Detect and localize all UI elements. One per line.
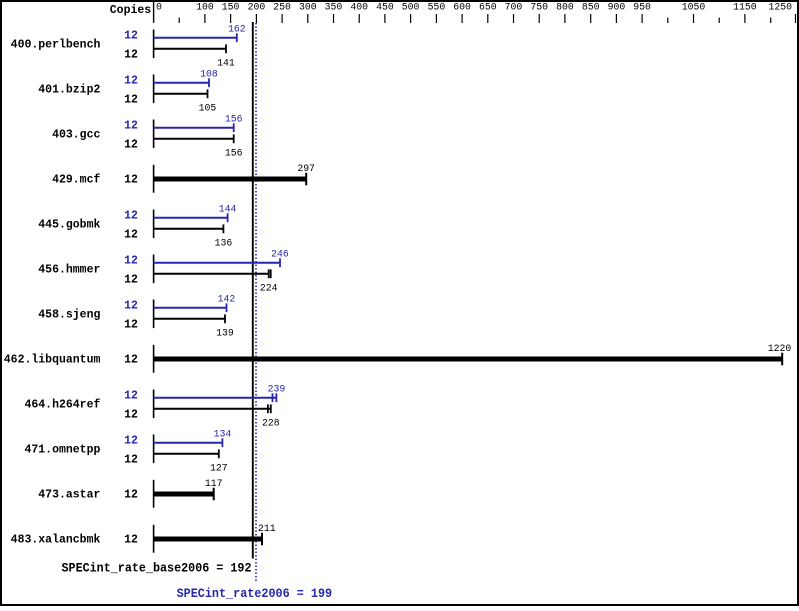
x axis tick 750	[538, 14, 540, 23]
483.xalancbmk bar (211)	[154, 537, 262, 542]
458.sjeng peak bar end cap	[226, 303, 228, 312]
svg-text:156: 156	[225, 113, 243, 124]
x axis tick 550	[435, 14, 437, 23]
429.mcf left cap	[153, 165, 155, 193]
svg-text:12: 12	[124, 120, 138, 133]
svg-text:500: 500	[402, 1, 420, 12]
401.bzip2 left cap	[153, 75, 155, 104]
x axis tick 200	[255, 14, 257, 23]
svg-text:150: 150	[222, 1, 240, 12]
429.mcf bar end cap	[305, 173, 307, 186]
svg-text:12: 12	[124, 489, 138, 502]
403.gcc base bar (156)	[154, 138, 234, 140]
x axis tick 950	[641, 14, 643, 23]
svg-text:350: 350	[325, 1, 343, 12]
svg-text:12: 12	[124, 30, 138, 43]
svg-text:SPECint_rate2006 = 199: SPECint_rate2006 = 199	[177, 586, 333, 601]
svg-text:108: 108	[200, 68, 218, 79]
svg-text:239: 239	[268, 383, 286, 394]
456.hmmer peak bar (246)	[154, 262, 280, 264]
svg-text:403.gcc: 403.gcc	[52, 129, 100, 142]
svg-text:700: 700	[505, 1, 523, 12]
svg-text:12: 12	[124, 49, 138, 62]
x axis tick 1250	[795, 14, 797, 23]
400.perlbench peak bar end cap	[236, 33, 238, 42]
svg-text:471.omnetpp: 471.omnetpp	[24, 444, 100, 457]
x axis tick 450	[384, 14, 386, 23]
471.omnetpp peak bar end cap	[221, 438, 223, 447]
svg-text:0: 0	[156, 1, 162, 12]
svg-text:473.astar: 473.astar	[38, 489, 100, 502]
svg-text:117: 117	[205, 478, 223, 489]
svg-text:458.sjeng: 458.sjeng	[38, 309, 100, 322]
svg-text:950: 950	[633, 1, 651, 12]
473.astar bar (117)	[154, 492, 214, 497]
445.gobmk left cap	[153, 210, 155, 239]
400.perlbench base bar (141)	[154, 48, 226, 50]
svg-text:1150: 1150	[733, 1, 757, 12]
464.h264ref peak bar (239)	[154, 397, 277, 399]
svg-text:127: 127	[210, 462, 228, 473]
svg-text:12: 12	[124, 94, 138, 107]
400.perlbench base bar end cap	[225, 44, 227, 53]
x axis minor tick 1100	[718, 18, 720, 23]
svg-text:445.gobmk: 445.gobmk	[38, 219, 100, 232]
svg-text:SPECint_rate_base2006 = 192: SPECint_rate_base2006 = 192	[62, 561, 252, 576]
svg-text:144: 144	[219, 203, 237, 214]
svg-text:464.h264ref: 464.h264ref	[24, 399, 100, 412]
svg-text:12: 12	[124, 319, 138, 332]
x axis minor tick 1200	[770, 18, 772, 23]
svg-text:1050: 1050	[682, 1, 706, 12]
x axis tick 700	[513, 14, 515, 23]
svg-text:900: 900	[608, 1, 626, 12]
445.gobmk base bar end cap	[222, 224, 224, 233]
svg-text:142: 142	[218, 293, 236, 304]
svg-text:136: 136	[215, 237, 233, 248]
473.astar bar end cap	[213, 488, 215, 501]
svg-text:12: 12	[124, 229, 138, 242]
458.sjeng left cap	[153, 300, 155, 329]
456.hmmer base bar (224)	[154, 273, 269, 275]
svg-text:141: 141	[217, 57, 235, 68]
svg-text:200: 200	[248, 1, 266, 12]
svg-text:300: 300	[299, 1, 317, 12]
svg-text:1220: 1220	[768, 343, 792, 354]
400.perlbench left cap	[153, 30, 155, 59]
svg-text:550: 550	[428, 1, 446, 12]
svg-text:450: 450	[376, 1, 394, 12]
x axis tick 150	[230, 14, 232, 23]
svg-text:850: 850	[582, 1, 600, 12]
456.hmmer base run mark	[270, 269, 272, 278]
445.gobmk peak bar (144)	[154, 217, 228, 219]
x axis tick 250	[281, 14, 283, 23]
471.omnetpp peak bar (134)	[154, 442, 223, 444]
svg-text:12: 12	[124, 534, 138, 547]
svg-text:228: 228	[262, 417, 280, 428]
471.omnetpp left cap	[153, 435, 155, 464]
429.mcf bar (297)	[154, 177, 307, 182]
401.bzip2 peak bar end cap	[208, 78, 210, 87]
svg-text:750: 750	[530, 1, 548, 12]
x axis tick 900	[615, 14, 617, 23]
svg-text:483.xalancbmk: 483.xalancbmk	[11, 534, 101, 547]
svg-text:250: 250	[273, 1, 291, 12]
svg-text:462.libquantum: 462.libquantum	[4, 354, 101, 367]
svg-text:456.hmmer: 456.hmmer	[38, 264, 100, 277]
x axis tick 600	[461, 14, 463, 23]
456.hmmer left cap	[153, 255, 155, 284]
401.bzip2 peak bar (108)	[154, 82, 209, 84]
x axis tick 1150	[744, 14, 746, 23]
x axis tick 1050	[693, 14, 695, 23]
svg-text:12: 12	[124, 210, 138, 223]
400.perlbench peak bar (162)	[154, 37, 237, 39]
473.astar left cap	[153, 480, 155, 508]
471.omnetpp base bar (127)	[154, 453, 219, 455]
svg-text:400: 400	[350, 1, 368, 12]
svg-text:12: 12	[124, 139, 138, 152]
svg-text:800: 800	[556, 1, 574, 12]
svg-text:12: 12	[124, 75, 138, 88]
svg-text:297: 297	[297, 163, 315, 174]
x axis tick 350	[333, 14, 335, 23]
svg-text:1250: 1250	[768, 1, 792, 12]
svg-text:134: 134	[214, 428, 232, 439]
x axis tick 300	[307, 14, 309, 23]
462.libquantum bar (1220)	[154, 357, 783, 362]
462.libquantum bar end cap	[781, 353, 783, 366]
reference line SPECint_rate_base2006 = 192	[252, 22, 254, 559]
svg-text:600: 600	[453, 1, 471, 12]
x axis tick 800	[564, 14, 566, 23]
svg-text:162: 162	[228, 23, 246, 34]
464.h264ref peak run mark	[272, 393, 274, 402]
svg-text:429.mcf: 429.mcf	[52, 174, 100, 187]
svg-text:12: 12	[124, 435, 138, 448]
svg-text:12: 12	[124, 390, 138, 403]
x axis minor tick 50	[178, 18, 180, 23]
403.gcc peak bar end cap	[233, 123, 235, 132]
464.h264ref base bar end cap	[270, 404, 272, 413]
svg-text:211: 211	[258, 523, 276, 534]
x axis tick 850	[590, 14, 592, 23]
401.bzip2 base bar end cap	[207, 89, 209, 98]
401.bzip2 base bar (105)	[154, 93, 208, 95]
403.gcc base bar end cap	[233, 134, 235, 143]
svg-text:12: 12	[124, 255, 138, 268]
plot left axis line	[153, 1, 155, 23]
403.gcc peak bar (156)	[154, 127, 234, 129]
464.h264ref peak bar end cap	[275, 393, 277, 402]
svg-text:401.bzip2: 401.bzip2	[38, 84, 100, 97]
x axis tick 650	[487, 14, 489, 23]
456.hmmer peak bar end cap	[279, 258, 281, 267]
464.h264ref base run mark	[267, 404, 269, 413]
svg-text:156: 156	[225, 147, 243, 158]
x axis minor tick 1000	[667, 18, 669, 23]
svg-text:12: 12	[124, 300, 138, 313]
svg-text:12: 12	[124, 174, 138, 187]
svg-text:224: 224	[260, 282, 278, 293]
svg-text:400.perlbench: 400.perlbench	[11, 39, 101, 52]
svg-text:12: 12	[124, 454, 138, 467]
svg-text:Copies: Copies	[110, 4, 152, 17]
458.sjeng base bar end cap	[224, 314, 226, 323]
svg-text:12: 12	[124, 354, 138, 367]
x axis tick 400	[358, 14, 360, 23]
svg-text:246: 246	[271, 248, 289, 259]
x axis tick 500	[410, 14, 412, 23]
456.hmmer base bar end cap	[268, 269, 270, 278]
483.xalancbmk bar end cap	[261, 533, 263, 546]
464.h264ref left cap	[153, 390, 155, 419]
x axis tick 100	[204, 14, 206, 23]
svg-text:100: 100	[196, 1, 214, 12]
svg-text:12: 12	[124, 274, 138, 287]
462.libquantum left cap	[153, 345, 155, 373]
403.gcc left cap	[153, 120, 155, 149]
458.sjeng base bar (139)	[154, 318, 225, 320]
445.gobmk base bar (136)	[154, 228, 224, 230]
471.omnetpp base bar end cap	[218, 449, 220, 458]
reference line SPECint_rate2006 = 199 (dotted)	[255, 23, 257, 583]
464.h264ref base bar (228)	[154, 408, 271, 410]
svg-text:105: 105	[199, 102, 217, 113]
svg-text:12: 12	[124, 409, 138, 422]
483.xalancbmk left cap	[153, 525, 155, 553]
458.sjeng peak bar (142)	[154, 307, 227, 309]
svg-text:139: 139	[216, 327, 234, 338]
svg-text:650: 650	[479, 1, 497, 12]
445.gobmk peak bar end cap	[227, 213, 229, 222]
